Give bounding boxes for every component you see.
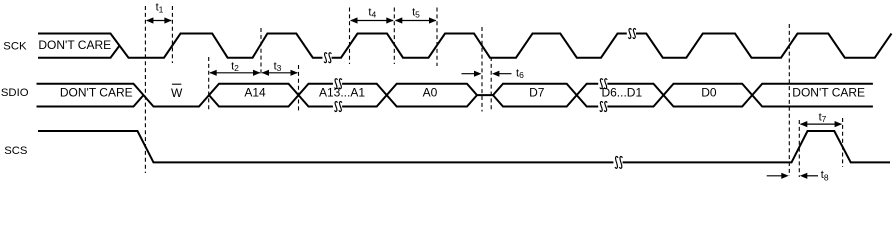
- dashed line at SCK rise 8 / t8 start: [788, 24, 790, 176]
- svg-text:DON'T CARE: DON'T CARE: [792, 86, 865, 100]
- dashed line at SCS rise / t7 start t8 end: [798, 120, 800, 177]
- dashed line at W->A14 / t2 start: [208, 57, 210, 112]
- t8 annotation with outward arrows: [767, 169, 829, 182]
- t6 annotation with outward arrows: [462, 68, 525, 81]
- svg-text:D7: D7: [529, 86, 545, 100]
- svg-text:t6: t6: [516, 68, 524, 81]
- dashed line at SCK rise 4 / t5 end: [436, 8, 438, 67]
- t5 annotation: [395, 7, 437, 24]
- svg-text:DON'T CARE: DON'T CARE: [60, 86, 133, 100]
- SCK don't-care bottom edge: [38, 46, 120, 58]
- svg-text:DON'T CARE: DON'T CARE: [38, 38, 111, 52]
- svg-text:SCK: SCK: [3, 40, 27, 52]
- SDIO waveform chain A: [37, 84, 873, 107]
- SDIO waveform chain B: [209, 84, 873, 107]
- break mark on SDIO D6 bus bottom line: [598, 102, 607, 112]
- svg-text:W: W: [171, 86, 183, 100]
- svg-text:D6...D1: D6...D1: [601, 86, 642, 100]
- dashed line at SCS fall 2 / t7 end: [842, 118, 844, 167]
- svg-text:t5: t5: [412, 7, 420, 20]
- SCK waveform main line: [38, 34, 892, 58]
- dashed line at SCS fall / t1 start: [144, 6, 146, 173]
- break mark on SCK high segment: [627, 29, 636, 39]
- dashed line at SCK fall 3 / t4 end t5 start: [393, 8, 395, 65]
- dashed line at A14->A13 / t3 end: [298, 65, 300, 112]
- svg-text:t3: t3: [274, 60, 282, 73]
- break mark on SCK low segment: [322, 53, 331, 63]
- svg-text:A13...A1: A13...A1: [319, 86, 365, 100]
- t1 annotation: [146, 2, 172, 24]
- t4 annotation: [350, 7, 394, 24]
- break mark on SCS low line: [613, 156, 622, 168]
- t3 annotation: [262, 60, 298, 76]
- svg-text:A0: A0: [423, 86, 438, 100]
- dashed line at SCK rise 2 / t2 end t3 start: [260, 28, 262, 75]
- dashed line at D7 drive start / t6 end: [490, 57, 492, 112]
- dashed line at SCK rise 1 / t1 end: [171, 6, 173, 63]
- break mark on SDIO D6 bus top line: [598, 79, 607, 89]
- dashed line at SCK fall 4 / t6 start: [481, 27, 483, 112]
- SCS waveform: [38, 131, 890, 162]
- t7 annotation: [800, 111, 842, 127]
- svg-text:A14: A14: [244, 86, 266, 100]
- svg-text:t4: t4: [368, 7, 376, 20]
- break mark on SDIO A13 bus top line: [333, 79, 342, 89]
- svg-text:t7: t7: [819, 111, 827, 124]
- break mark on SDIO A13 bus bottom line: [333, 102, 342, 112]
- dashed marker lines: [145, 6, 842, 177]
- svg-text:D0: D0: [701, 86, 717, 100]
- dashed line at SCK rise 3 / t4 start: [349, 8, 351, 65]
- svg-text:t2: t2: [231, 60, 239, 73]
- SDIO don't-care bottom closing stub: [37, 95, 144, 106]
- t2 annotation: [209, 60, 260, 76]
- svg-text:SDIO: SDIO: [1, 87, 29, 99]
- svg-text:SCS: SCS: [4, 145, 28, 157]
